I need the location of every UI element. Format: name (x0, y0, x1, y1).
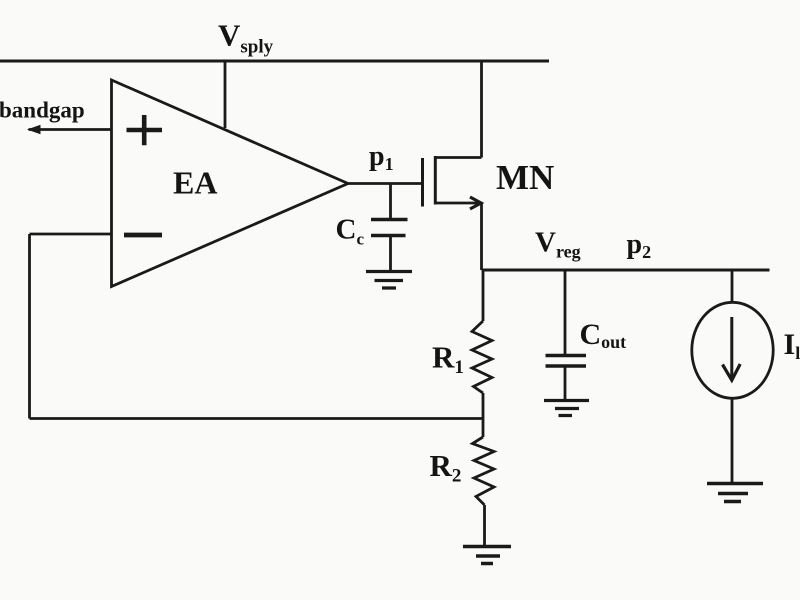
ground for Cc (366, 272, 412, 289)
op-amp U1 EA triangle (112, 80, 349, 287)
svg-text:Vsply: Vsply (218, 18, 274, 58)
svg-text:MN: MN (496, 158, 554, 197)
EA inverting input minus symbol (124, 233, 162, 238)
arrowhead on bandgap wire (27, 125, 41, 134)
wire Vreg to current source (731, 270, 734, 303)
wire feedback vertical (28, 234, 31, 419)
EA non-inverting input plus symbol (127, 115, 163, 145)
capacitor Cc top plate (371, 218, 408, 221)
wire Vreg to Cout (564, 270, 567, 354)
resistor R2 zigzag (473, 437, 495, 505)
wire MN source down to Vreg rail (480, 203, 483, 270)
svg-text:p2: p2 (627, 229, 652, 262)
wire MN drain to Vsply rail (480, 61, 483, 158)
wire Vreg to R1 (482, 270, 485, 321)
transistor MN source lead (435, 202, 481, 205)
capacitor Cc bottom lead (389, 236, 392, 272)
svg-text:bandgap: bandgap (0, 98, 85, 123)
svg-text:Cc: Cc (336, 214, 365, 249)
capacitor Cc bottom plate (371, 234, 406, 237)
wire EA output node p1 (348, 182, 423, 185)
transistor MN source arrowhead (470, 197, 481, 209)
capacitor Cout bottom plate (546, 364, 587, 368)
svg-text:p1: p1 (369, 141, 394, 174)
svg-text:Vreg: Vreg (535, 227, 581, 262)
capacitor Cout top plate (546, 354, 587, 358)
ground for Cout (544, 401, 589, 416)
wire R1 to feedback node (482, 393, 485, 437)
resistor R1 zigzag (472, 321, 492, 393)
svg-text:Il: Il (784, 328, 800, 363)
wire Vreg rail (482, 269, 770, 272)
ground for R2 (463, 547, 511, 564)
current source I1 circle (692, 302, 773, 398)
svg-text:EA: EA (173, 165, 217, 201)
current source arrowhead (723, 364, 741, 380)
transistor MN gate bar (421, 158, 424, 207)
svg-text:Cout: Cout (580, 318, 627, 352)
wire Vsply top rail (0, 60, 549, 63)
wire EA inverting input (30, 233, 112, 236)
ground for current source (707, 484, 763, 502)
wire current source to ground (731, 398, 734, 482)
capacitor Cout bottom lead (564, 366, 567, 399)
svg-text:R1: R1 (432, 340, 464, 379)
capacitor Cc top lead (389, 184, 392, 220)
wire bandgap input (29, 128, 112, 131)
transistor MN drain lead (435, 156, 481, 159)
wire supply tap from rail to EA (224, 61, 227, 128)
wire R2 to ground (483, 505, 486, 546)
wire feedback horizontal to R1/R2 node (30, 417, 484, 420)
transistor MN channel bar (434, 156, 437, 205)
svg-text:R2: R2 (430, 448, 462, 487)
current source arrow shaft (730, 317, 733, 378)
